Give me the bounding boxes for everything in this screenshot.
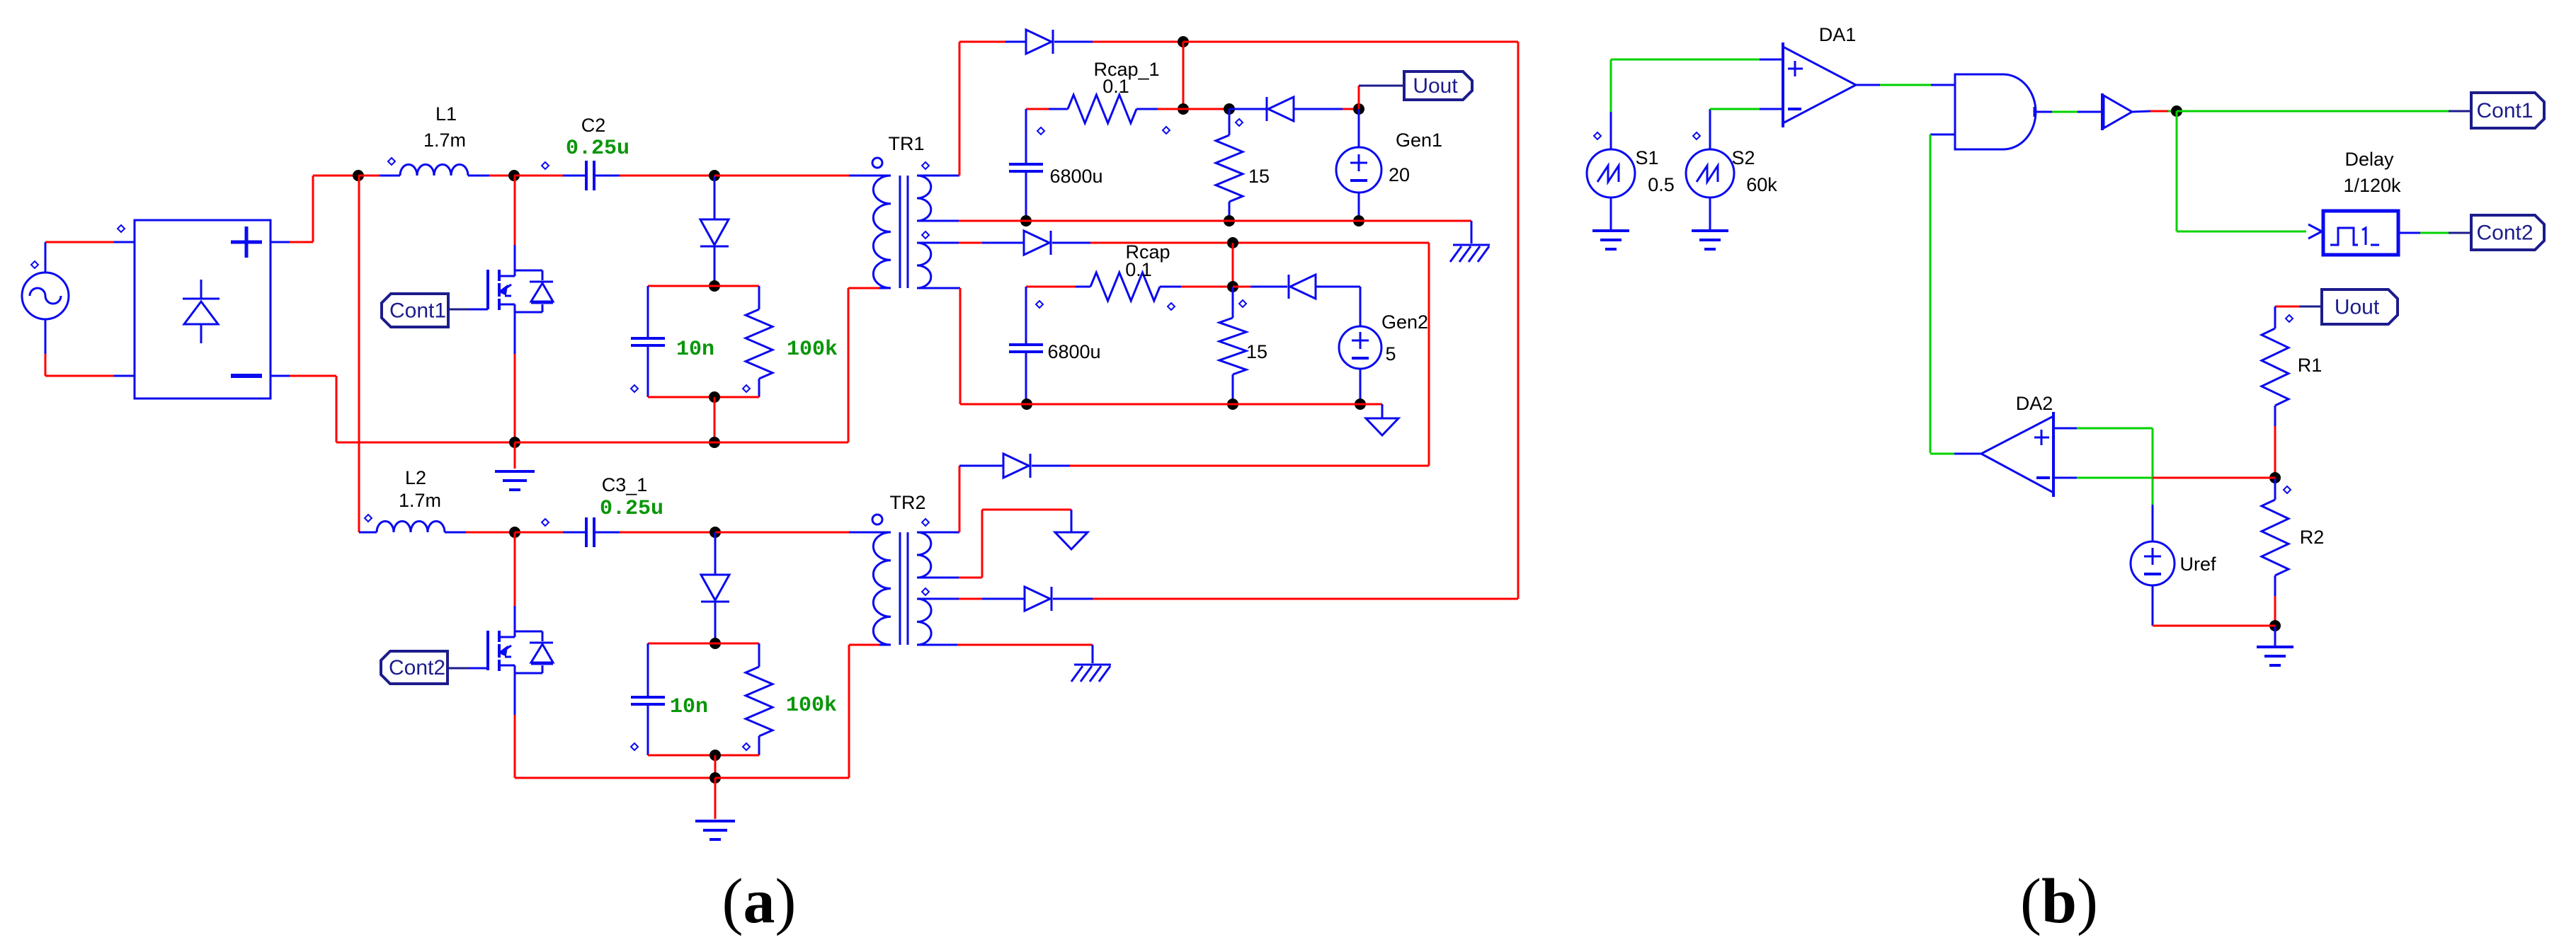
label S2 value — [1746, 174, 1777, 195]
transformer TR2 — [872, 515, 931, 645]
transformer TR1 — [872, 158, 931, 288]
ground Gen2 arrow — [1366, 404, 1398, 435]
node Gen2 bottom — [1355, 398, 1366, 410]
node filter1 mid — [1224, 103, 1235, 115]
wire bridge+ to node A — [270, 176, 358, 242]
wire to Cont1 tag — [2177, 110, 2471, 113]
port tag Cont2 b — [2471, 215, 2544, 250]
node C3_1/snubber2 — [709, 527, 721, 538]
label Rcap_1 — [1093, 59, 1159, 80]
svg-text:100k: 100k — [786, 694, 837, 718]
wire mid diode rail — [1090, 243, 1429, 466]
diode D6 to Gen2 — [1233, 275, 1360, 326]
svg-text:L2: L2 — [405, 467, 426, 488]
node snubber1 bottom — [709, 391, 720, 403]
svg-text:R1: R1 — [2298, 355, 2323, 376]
wire bridge- to return rail — [270, 376, 515, 442]
node R2 bottom — [2269, 620, 2281, 631]
wire D8 to mid net — [1070, 465, 1429, 467]
capacitor C3_1 — [515, 517, 715, 547]
wire rail2 to TR2 — [715, 645, 879, 778]
and gate U1 — [1955, 74, 2036, 149]
svg-text:C2: C2 — [581, 115, 606, 136]
label Gen2 value — [1385, 343, 1396, 365]
wire source to rail — [514, 354, 516, 442]
diode D3 to Gen1 — [1229, 97, 1359, 121]
svg-text:0.1: 0.1 — [1125, 259, 1152, 280]
node C4 bottom — [1020, 215, 1032, 226]
label 6800u #1 — [1049, 166, 1102, 187]
wire Cont2 to gate — [448, 667, 487, 670]
wire TR2 sec1-top up — [929, 466, 959, 532]
label Gen2 — [1381, 311, 1428, 333]
svg-text:L1: L1 — [435, 103, 457, 125]
label R2 — [2300, 527, 2325, 548]
diode D1 snubber1 — [700, 176, 729, 286]
port tag Uout b — [2322, 289, 2398, 324]
resistor Rload1 15 — [1216, 109, 1243, 221]
svg-text:100k: 100k — [787, 338, 838, 362]
capacitor C2 — [514, 161, 714, 190]
wire Cont1 to gate — [448, 309, 488, 311]
inductor L2 — [359, 515, 515, 532]
svg-text:0.1: 0.1 — [1102, 76, 1129, 97]
svg-text:Cont2: Cont2 — [389, 656, 445, 679]
ground arrow TR2 — [1055, 510, 1088, 549]
node source/rail — [509, 437, 520, 448]
node filter2 mid — [1227, 281, 1238, 292]
svg-text:Cont1: Cont1 — [2476, 99, 2533, 122]
label TR1 — [888, 133, 924, 154]
delay block U3 — [2323, 211, 2398, 255]
wire TR2 sec1-bot — [929, 510, 1071, 578]
ground return 1 — [495, 442, 535, 490]
wire ac-bottom to bridge — [45, 319, 135, 376]
mosfet Q1 — [488, 245, 553, 354]
wire DA1 out to AND — [1856, 84, 1955, 86]
node Rcap_1 left-junction — [1178, 103, 1189, 115]
port tag Cont2 — [381, 651, 448, 684]
label L2 — [405, 467, 426, 488]
buffer U2 — [2102, 93, 2132, 130]
wire TR2 sec2-top — [929, 598, 1025, 600]
svg-text:Gen1: Gen1 — [1396, 130, 1442, 151]
label Delay — [2344, 149, 2394, 170]
svg-text:Delay: Delay — [2344, 149, 2394, 170]
svg-text:TR2: TR2 — [889, 492, 925, 513]
label S1 value — [1648, 174, 1675, 195]
node snubber2 rail — [709, 772, 721, 784]
svg-text:0.25u: 0.25u — [566, 137, 629, 161]
port tag Uout a — [1404, 71, 1472, 100]
svg-text:Uout: Uout — [2335, 296, 2380, 319]
node Gen1 top — [1353, 103, 1364, 115]
resistor Rcap — [1026, 273, 1233, 310]
resistor R1 — [2262, 328, 2289, 478]
wire AND out to buffer — [2036, 111, 2102, 113]
label 15 #2 — [1246, 341, 1267, 362]
op-amp DA1 — [1783, 42, 1856, 127]
caption (a) — [722, 866, 797, 936]
source Gen2 — [1339, 326, 1381, 404]
node R15-2 bottom — [1227, 398, 1238, 410]
capacitor Csn1 10n — [631, 286, 665, 397]
svg-text:DA2: DA2 — [2016, 393, 2053, 414]
label R1 — [2298, 355, 2323, 376]
wire node to delay — [2177, 111, 2306, 231]
svg-text:15: 15 — [1248, 166, 1270, 187]
source Gen1 — [1336, 109, 1381, 221]
wire snubber1 top — [648, 285, 759, 287]
resistor R2 — [2262, 478, 2291, 626]
wire TR1 sec2-bottom drop — [929, 288, 960, 404]
svg-text:20: 20 — [1389, 164, 1410, 185]
wire top rail right — [1183, 42, 1518, 599]
node lower filter top — [1227, 237, 1238, 248]
label Gen1 value — [1389, 164, 1410, 185]
node snubber1 top — [709, 280, 720, 292]
svg-text:S1: S1 — [1635, 147, 1658, 168]
label TR2 — [889, 492, 925, 513]
wire drain2 — [514, 532, 516, 606]
label 6800u #2 — [1047, 341, 1100, 362]
svg-text:0.5: 0.5 — [1648, 174, 1675, 195]
wire DA2 out — [1930, 453, 1981, 455]
svg-text:S2: S2 — [1731, 147, 1755, 168]
wire input drop to L2 — [358, 176, 360, 532]
svg-text:6800u: 6800u — [1049, 166, 1102, 187]
label S1 — [1635, 147, 1658, 168]
label Gen1 — [1396, 130, 1442, 151]
node snubber2 bottom — [709, 750, 721, 761]
wire filter2 bottom rail — [960, 403, 1382, 406]
label C2 value — [566, 137, 629, 161]
diode D7 snubber2 — [701, 532, 729, 643]
wire snubber2 bottom — [631, 743, 759, 755]
svg-text:DA1: DA1 — [1819, 24, 1857, 45]
wire C2 to TR1 — [714, 175, 879, 177]
wire filter2 drop — [1232, 243, 1234, 287]
wire DA2- to divider — [2053, 477, 2275, 479]
resistor Rcap_1 — [1026, 95, 1183, 134]
svg-text:10n: 10n — [670, 695, 708, 719]
ground R2 — [2257, 626, 2293, 665]
svg-text:60k: 60k — [1746, 174, 1777, 195]
wire ac-top to bridge — [45, 242, 135, 273]
capacitor Csn2 10n — [631, 643, 665, 755]
node snubber2 top — [709, 638, 721, 649]
wire C3_1 to TR2 — [715, 532, 879, 534]
label 10n #2 — [670, 695, 708, 719]
node cont1 — [2171, 105, 2182, 117]
svg-text:Cont1: Cont1 — [389, 299, 446, 323]
port tag Cont1 b — [2471, 93, 2544, 128]
label C3_1 value — [600, 497, 663, 521]
ground return 2 — [695, 778, 735, 839]
source Uref — [2131, 541, 2175, 626]
wire buffer out — [2132, 111, 2177, 112]
ground mid rail — [1450, 221, 1490, 262]
node B drain/C2 — [508, 170, 520, 181]
ground hatch TR2 — [1071, 645, 1111, 682]
source S1 — [1587, 132, 1635, 197]
wire snubber2 top — [648, 643, 759, 645]
inductor L1 — [358, 158, 514, 176]
caption (b) — [2020, 866, 2098, 936]
source S2 — [1686, 132, 1734, 197]
diode D2 rect-top — [959, 30, 1093, 54]
svg-text:(b): (b) — [2020, 866, 2098, 936]
label Rcap — [1125, 241, 1170, 263]
svg-text:6800u: 6800u — [1047, 341, 1100, 362]
label L1 — [435, 103, 457, 125]
wire Uref to gnd node — [2153, 625, 2275, 627]
wire snubber1 to rail — [714, 397, 716, 442]
wire TR1 sec1-top up — [929, 42, 959, 176]
node top rail — [1178, 36, 1189, 47]
label DA2 — [2016, 393, 2053, 414]
wire Uout to R1 — [2275, 306, 2322, 328]
bridge rectifier D5 — [118, 220, 270, 398]
wire delay out — [2398, 232, 2471, 234]
svg-text:TR1: TR1 — [888, 133, 924, 154]
wire DA2 out to AND — [1930, 134, 1955, 453]
svg-text:Uout: Uout — [1413, 74, 1458, 98]
wire DA2+ to Uref — [2053, 428, 2153, 541]
resistor Rload2 15 — [1219, 287, 1246, 404]
svg-text:5: 5 — [1385, 343, 1396, 365]
wire top drop — [1182, 42, 1185, 109]
node snubber1 rail — [709, 437, 720, 448]
label Delay value — [2343, 175, 2401, 196]
wire Rcap_1 to node — [1183, 108, 1229, 110]
capacitor C4 6800u — [1009, 109, 1043, 221]
svg-text:1.7m: 1.7m — [423, 130, 466, 151]
wire Uout-a — [1359, 86, 1404, 109]
node R1/R2 — [2269, 472, 2281, 483]
label Rcap_1 value — [1102, 76, 1129, 97]
svg-text:1/120k: 1/120k — [2343, 175, 2401, 196]
label C2 — [581, 115, 606, 136]
wire TR2 sec2-bot — [929, 644, 1093, 646]
ground S1 — [1592, 197, 1629, 249]
svg-text:0.25u: 0.25u — [600, 497, 663, 521]
label DA1 — [1819, 24, 1857, 45]
label 100k #2 — [786, 694, 837, 718]
wire top rail — [1093, 41, 1183, 43]
label L2 value — [399, 490, 441, 511]
node Gen1 bottom — [1353, 215, 1364, 226]
wire source2 to rail — [515, 715, 715, 778]
wire snubber1 bottom — [631, 385, 759, 397]
mosfet Q2 — [488, 606, 553, 715]
node C2-snubber — [709, 170, 720, 181]
op-amp DA2 — [1981, 412, 2053, 497]
svg-text:R2: R2 — [2300, 527, 2325, 548]
label L1 value — [423, 130, 466, 151]
svg-text:15: 15 — [1246, 341, 1267, 362]
resistor Rsn1 100k — [746, 286, 773, 397]
svg-text:Uref: Uref — [2179, 554, 2216, 575]
label 10n #1 — [676, 338, 714, 362]
arrow into delay — [2308, 224, 2322, 239]
svg-text:10n: 10n — [676, 338, 714, 362]
label Rcap value — [1125, 259, 1152, 280]
wire snubber2 to rail — [714, 755, 717, 778]
ac source V1 — [22, 261, 69, 319]
svg-text:C3_1: C3_1 — [602, 474, 648, 495]
label S2 — [1731, 147, 1755, 168]
node R15-1 bottom — [1224, 215, 1235, 226]
resistor Rsn2 100k — [746, 643, 773, 755]
capacitor C5 6800u — [1009, 287, 1043, 404]
port tag Cont1 — [382, 294, 448, 327]
node C5 bottom — [1021, 398, 1032, 410]
label 15 #1 — [1248, 166, 1270, 187]
wire mid rail — [929, 220, 1471, 222]
wire D9 to top net — [1093, 598, 1518, 600]
svg-text:(a): (a) — [722, 866, 797, 936]
wire S2 to DA1- — [1710, 109, 1783, 149]
label 100k #1 — [787, 338, 838, 362]
label C3_1 — [602, 474, 648, 495]
ground S2 — [1692, 197, 1728, 249]
wire return rail to TR1 — [515, 288, 879, 442]
label Uref — [2179, 554, 2216, 575]
node A — [353, 170, 364, 181]
wire S1 to DA1+ — [1611, 59, 1783, 149]
svg-text:1.7m: 1.7m — [399, 490, 441, 511]
svg-text:Gen2: Gen2 — [1381, 311, 1428, 333]
diode D9 — [1025, 587, 1093, 611]
node L2/drain — [509, 527, 520, 538]
wire drain — [514, 176, 516, 245]
diode D4 rect-mid — [929, 231, 1090, 255]
diode D8 — [959, 454, 1070, 478]
svg-text:Cont2: Cont2 — [2476, 222, 2533, 245]
